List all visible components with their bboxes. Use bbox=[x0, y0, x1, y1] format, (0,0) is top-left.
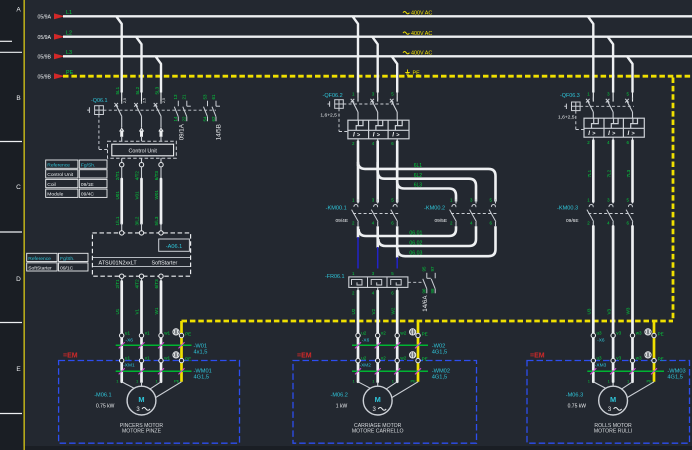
wire 1 terminal X6 to XM motor 2 bbox=[357, 338, 360, 359]
motor 3 lead-in wires bbox=[593, 382, 654, 398]
svg-text:06.03: 06.03 bbox=[409, 251, 422, 257]
location box =EM motor 3 bbox=[527, 361, 690, 444]
svg-text:6L2: 6L2 bbox=[414, 173, 423, 179]
svg-text:-FR06.1: -FR06.1 bbox=[325, 274, 344, 280]
wire 2 KM00.3 to terminal X6 motor 3 bbox=[612, 226, 615, 333]
svg-text:61: 61 bbox=[211, 94, 216, 100]
breaker QF06.2 pole 3 bbox=[390, 98, 397, 121]
breaker QF06.2 release box bbox=[348, 120, 409, 139]
terminal strip -XM1 motor 1 bbox=[120, 358, 184, 362]
terminal labels -XM1 motor 1 bbox=[123, 355, 191, 368]
cable -WM03 motor 3 bbox=[587, 368, 685, 380]
contactor KM00.2 pole 2 bbox=[470, 199, 477, 226]
svg-text:6/T3: 6/T3 bbox=[154, 171, 159, 181]
PE distribution bus horizontal bbox=[182, 320, 674, 323]
label ~400V AC bbox=[403, 11, 432, 17]
wire 2 XM to motor 2 bbox=[376, 363, 379, 382]
svg-text:1,6+2,5: 1,6+2,5 bbox=[320, 113, 337, 119]
wire branch2 pole 3 continues to KM00.1 bbox=[396, 165, 399, 202]
ferrule on wire 1 above control unit bbox=[120, 128, 124, 141]
wire link 6L2 bbox=[378, 162, 476, 202]
svg-text:=EM: =EM bbox=[63, 352, 78, 359]
PE symbol motor 3 bbox=[645, 352, 651, 358]
svg-text:u1: u1 bbox=[125, 330, 131, 335]
label =EM motor 1 bbox=[63, 352, 78, 359]
breaker QF06.3 setting 1,6+2,5 bbox=[558, 115, 575, 121]
wire labels 7L1 7L2 7L3 bbox=[587, 169, 631, 177]
svg-text:A: A bbox=[16, 7, 21, 14]
label motor 1 power rating bbox=[96, 404, 115, 410]
svg-text:4G1,5: 4G1,5 bbox=[667, 375, 683, 381]
terminal numbers QF06.2 bottom 2 4 6 bbox=[352, 141, 394, 146]
svg-text:V2: V2 bbox=[371, 308, 376, 314]
cable -WM02 motor 2 bbox=[352, 368, 450, 380]
svg-text:w2: w2 bbox=[400, 355, 406, 360]
motor 1 lead terminal marks bbox=[116, 379, 179, 384]
cable -WM01 motor 1 bbox=[116, 368, 212, 380]
thermal relay FR06.1 dashed link to aux contact bbox=[408, 281, 424, 283]
svg-text:v3: v3 bbox=[616, 330, 621, 335]
svg-text:2,5: 2,5 bbox=[123, 98, 127, 103]
caption motor 2 bbox=[352, 423, 404, 434]
soft starter terminal circles wire 3 bbox=[159, 231, 163, 279]
svg-text:09/5E: 09/5E bbox=[435, 218, 448, 224]
breaker QF06.3 release box bbox=[584, 118, 644, 137]
svg-text:I: I bbox=[392, 132, 394, 139]
wire 1 XM to motor 2 bbox=[357, 363, 360, 382]
breaker QF06.2 actuator bbox=[328, 100, 344, 109]
svg-text:-QF06.3: -QF06.3 bbox=[560, 93, 580, 99]
PE symbol motor 1 bbox=[173, 352, 179, 358]
control unit box bbox=[108, 141, 177, 158]
wire branch2 L1 drop bbox=[353, 16, 359, 101]
svg-text:98: 98 bbox=[430, 288, 435, 294]
svg-text:05/9B: 05/9B bbox=[37, 74, 51, 80]
PE drop motor 1 bbox=[180, 321, 183, 382]
svg-text:-M06.2: -M06.2 bbox=[330, 393, 347, 399]
wire node 06.03 blue segment to FR06.1 bbox=[396, 257, 398, 268]
label PE with earth symbol bbox=[405, 70, 420, 77]
wire 2 XM to motor 3 bbox=[612, 363, 615, 382]
svg-text:-KM00.2: -KM00.2 bbox=[424, 206, 445, 212]
svg-text:MOTORE CARRELLO: MOTORE CARRELLO bbox=[352, 428, 404, 434]
contactor KM00.2 page ref bbox=[435, 218, 448, 224]
contactor KM00.1 label bbox=[326, 206, 347, 212]
svg-text:0.75 kW: 0.75 kW bbox=[96, 404, 115, 410]
wire 3 terminal X6 to XM motor 3 bbox=[631, 338, 634, 359]
wire 2 terminal X6 to XM motor 3 bbox=[612, 338, 615, 359]
contactor KM00.2 mech dashed link bbox=[451, 213, 497, 215]
breaker QF06.2 pole 1 bbox=[351, 98, 358, 121]
wire branch2 pole 1 continues to KM00.1 bbox=[357, 165, 360, 202]
breaker Q06.1 label bbox=[91, 98, 107, 104]
wire KM00.1 pole 3 output to junction bbox=[396, 226, 399, 257]
contactor KM00.1 mech dashed link bbox=[353, 213, 398, 215]
svg-text:5L3: 5L3 bbox=[155, 86, 160, 94]
terminal labels X6 motor 3 bbox=[597, 330, 664, 343]
breaker QF06.2 setting 1,6+2,5 bbox=[320, 113, 337, 119]
svg-text:U01: U01 bbox=[115, 191, 120, 200]
terminal numbers QF06.3 bottom 2 4 6 bbox=[587, 140, 629, 145]
wire labels U2 V2 W2 bbox=[351, 307, 395, 314]
svg-text:3/L2: 3/L2 bbox=[135, 216, 140, 225]
wire branch3 L1 drop bbox=[588, 16, 594, 101]
svg-text:w1: w1 bbox=[164, 330, 170, 335]
contactor KM00.2 terminal numbers bbox=[450, 198, 493, 226]
wire 1 XM to motor 1 bbox=[120, 363, 123, 382]
svg-text:PE: PE bbox=[413, 71, 421, 77]
svg-text:0.75 kW: 0.75 kW bbox=[568, 404, 587, 410]
svg-text:Fg/Sh.: Fg/Sh. bbox=[81, 163, 95, 169]
svg-text:09/1A: 09/1A bbox=[179, 123, 186, 140]
soft starter A06.1 box bbox=[92, 233, 190, 276]
contactor KM00.3 mech dashed link bbox=[588, 213, 633, 215]
contactor KM00.3 pole 1 bbox=[587, 199, 594, 226]
svg-text:06.01: 06.01 bbox=[409, 231, 422, 237]
breaker QF06.3 pole 2 bbox=[606, 98, 613, 119]
wire QF06.2 pole 3 down to junction bbox=[396, 139, 398, 165]
wire 2 control unit to softstarter bbox=[139, 158, 143, 230]
wire node 06.02 blue segment to FR06.1 bbox=[377, 247, 379, 269]
svg-text:I: I bbox=[373, 132, 375, 139]
terminal numbers QF06.2 top 1 3 5 bbox=[352, 92, 630, 97]
svg-text:I: I bbox=[628, 130, 630, 137]
ferrule on wire 3 above control unit bbox=[159, 128, 163, 141]
wire 1 KM00.3 to terminal X6 motor 3 bbox=[592, 226, 595, 333]
PE drop motor 3 bbox=[653, 321, 656, 382]
terminal strip X6 motor 1 bbox=[120, 333, 184, 337]
svg-text:E: E bbox=[16, 366, 21, 373]
aux contact Q06.1 13-14 / 21-22 bbox=[173, 94, 191, 122]
svg-text:PE: PE bbox=[658, 332, 664, 337]
wire 3 XM to motor 1 bbox=[160, 363, 163, 382]
wire QF06.2 pole 1 down to junction bbox=[357, 139, 359, 165]
frame row letters bbox=[16, 7, 21, 374]
contactor KM00.3 page ref bbox=[566, 218, 579, 224]
svg-text:w3: w3 bbox=[636, 330, 642, 335]
breaker QF06.2 dashed drop to release box bbox=[339, 108, 348, 131]
svg-text:7L1: 7L1 bbox=[587, 169, 592, 177]
svg-text:1/L1: 1/L1 bbox=[115, 216, 120, 225]
wire node 06.03 merge link bbox=[398, 226, 496, 256]
svg-text:54: 54 bbox=[202, 116, 207, 122]
svg-text:400V AC: 400V AC bbox=[411, 31, 432, 37]
svg-text:V01: V01 bbox=[135, 191, 140, 200]
wire 1 softstarter to terminal X6 bbox=[121, 279, 123, 334]
svg-text:-X6: -X6 bbox=[362, 338, 370, 344]
svg-text:97: 97 bbox=[430, 266, 435, 272]
svg-text:95: 95 bbox=[422, 266, 427, 272]
motor 1 lead-in wires bbox=[122, 382, 182, 398]
label motor 3 power rating bbox=[568, 404, 587, 410]
svg-text:W1: W1 bbox=[154, 307, 159, 314]
svg-text:1,6+2,5: 1,6+2,5 bbox=[558, 115, 575, 121]
PE symbol motor 3 bbox=[645, 329, 651, 335]
wire 2 softstarter to terminal X6 bbox=[141, 279, 143, 334]
svg-text:400V AC: 400V AC bbox=[411, 51, 432, 57]
svg-text:U2: U2 bbox=[351, 308, 356, 314]
svg-text:14: 14 bbox=[173, 116, 178, 122]
svg-text:M: M bbox=[138, 395, 144, 404]
terminal labels -XM2 motor 2 bbox=[360, 355, 428, 368]
svg-text:21: 21 bbox=[182, 94, 187, 100]
wire 3 XM to motor 2 bbox=[396, 363, 399, 382]
terminal labels -XM3 motor 3 bbox=[595, 355, 664, 368]
PE symbol motor 1 bbox=[173, 329, 179, 335]
wire 3 terminal X6 to XM motor 1 bbox=[160, 338, 163, 359]
aux contact FR06.1 95-96 / 97-98 bbox=[422, 266, 436, 294]
svg-text:-WM03: -WM03 bbox=[667, 368, 685, 374]
svg-text:PE: PE bbox=[658, 356, 664, 361]
svg-text:W3: W3 bbox=[626, 307, 631, 314]
svg-text:V3: V3 bbox=[606, 308, 611, 314]
label 6L3 bbox=[414, 183, 423, 189]
contactor KM00.3 pole 2 bbox=[607, 199, 614, 226]
svg-text:U3: U3 bbox=[587, 308, 592, 314]
svg-text:U1: U1 bbox=[115, 308, 120, 314]
label 6L2 bbox=[414, 173, 423, 179]
location box =EM motor 1 bbox=[59, 361, 240, 444]
label =EM motor 3 bbox=[530, 352, 545, 359]
svg-text:-X6: -X6 bbox=[597, 338, 605, 344]
breaker QF06.3 pole 1 bbox=[586, 98, 593, 119]
svg-text:u3: u3 bbox=[597, 355, 603, 360]
svg-text:4G1,5: 4G1,5 bbox=[432, 350, 448, 356]
breaker QF06.3 pole 3 bbox=[625, 98, 632, 119]
aux contact Q06.1 53-54 / 61-62 bbox=[202, 94, 220, 122]
wire branch3 L3 drop bbox=[627, 56, 633, 101]
svg-text:SoftStarter: SoftStarter bbox=[28, 265, 52, 271]
frame row tick marks bbox=[0, 41, 22, 413]
soft starter terminal circles wire 1 bbox=[120, 231, 124, 279]
svg-text:6L3: 6L3 bbox=[414, 183, 423, 189]
label =EM motor 2 bbox=[297, 352, 312, 359]
ferrule on wire 2 above control unit bbox=[139, 128, 143, 141]
breaker Q06.1 pole 1 contact bbox=[114, 102, 121, 128]
breaker QF06.2 pole 2 bbox=[370, 98, 377, 121]
svg-text:M: M bbox=[610, 395, 616, 404]
svg-text:62: 62 bbox=[211, 116, 216, 122]
svg-text:Reference: Reference bbox=[28, 256, 51, 262]
breaker Q06.1 trip dashed link bbox=[103, 109, 216, 111]
label node 06.01 bbox=[409, 231, 422, 237]
svg-text:22: 22 bbox=[182, 116, 187, 122]
terminal strip -XM2 motor 2 bbox=[356, 358, 420, 362]
svg-text:u2: u2 bbox=[361, 330, 367, 335]
wire node 06.01 blue segment to FR06.1 bbox=[357, 237, 359, 269]
wire branch2 pole 2 continues to KM00.1 bbox=[376, 165, 379, 202]
wire branch1 L3 drop bbox=[156, 56, 162, 101]
wire KM00.1 pole 2 output to junction bbox=[376, 226, 379, 247]
svg-text:w3: w3 bbox=[636, 355, 642, 360]
breaker QF06.3 dashed drop to release box bbox=[576, 111, 584, 130]
svg-text:w2: w2 bbox=[400, 330, 406, 335]
svg-text:-WM01: -WM01 bbox=[194, 368, 212, 374]
svg-text:W01: W01 bbox=[154, 190, 159, 200]
PE riser right side bbox=[672, 78, 675, 322]
svg-text:1 kW: 1 kW bbox=[336, 404, 348, 410]
wire 1 XM to motor 3 bbox=[592, 363, 595, 382]
svg-text:09/6E: 09/6E bbox=[566, 218, 579, 224]
wire QF06.2 pole 2 down to junction bbox=[377, 139, 379, 165]
svg-text:-W01: -W01 bbox=[194, 343, 208, 349]
svg-text:v3: v3 bbox=[616, 355, 621, 360]
wire 2 terminal X6 to XM motor 2 bbox=[376, 338, 379, 359]
svg-text:I: I bbox=[608, 130, 610, 137]
contactor KM00.1 page ref bbox=[336, 218, 349, 224]
svg-text:Module: Module bbox=[47, 192, 63, 198]
svg-text:-W02: -W02 bbox=[432, 343, 446, 349]
thermal relay FR06.1 terminal numbers bottom bbox=[352, 291, 394, 296]
PE symbol motor 2 bbox=[410, 352, 416, 358]
wire 2 FR06.1 to terminal X6 motor 2 bbox=[377, 287, 379, 333]
svg-text:I: I bbox=[353, 132, 355, 139]
svg-text:ATSU01N2xxLT: ATSU01N2xxLT bbox=[99, 261, 138, 267]
motor 2 lead terminal marks bbox=[353, 379, 417, 384]
svg-text:4G1,5: 4G1,5 bbox=[194, 375, 210, 381]
svg-text:PE: PE bbox=[422, 332, 428, 337]
svg-text:5L2: 5L2 bbox=[135, 86, 140, 94]
motor -M06.2 bbox=[363, 386, 392, 415]
soft starter name plate -A06.1 bbox=[159, 239, 190, 251]
svg-text:6/T3: 6/T3 bbox=[154, 279, 159, 289]
label node 06.02 bbox=[409, 241, 422, 247]
svg-text:4G1,5: 4G1,5 bbox=[432, 375, 448, 381]
svg-text:W2: W2 bbox=[390, 307, 395, 314]
svg-text:6L1: 6L1 bbox=[414, 163, 423, 169]
svg-text:5L1: 5L1 bbox=[115, 86, 120, 94]
terminal strip X6 motor 2 bbox=[356, 333, 420, 337]
wire 3 terminal X6 to XM motor 2 bbox=[396, 338, 399, 359]
contactor KM00.3 terminal numbers bbox=[587, 198, 629, 226]
label -M06.3 bbox=[566, 393, 583, 399]
wire 3 KM00.3 to terminal X6 motor 3 bbox=[631, 226, 634, 333]
wire node 06.02 merge link bbox=[378, 226, 476, 246]
contactor KM00.3 pole 3 bbox=[626, 199, 633, 226]
wire 3 FR06.1 to terminal X6 motor 2 bbox=[396, 287, 398, 333]
terminal strip -XM3 motor 3 bbox=[591, 358, 656, 362]
svg-text:PE: PE bbox=[185, 332, 191, 337]
breaker QF06.2 label bbox=[323, 93, 343, 99]
wire labels 5L1 5L2 5L3 bbox=[115, 86, 166, 103]
frame border yellow line bbox=[23, 0, 25, 450]
wire 2 terminal X6 to XM motor 1 bbox=[140, 338, 143, 359]
svg-text:Fg/Sh.: Fg/Sh. bbox=[60, 256, 74, 262]
soft starter terminal circles wire 2 bbox=[139, 231, 143, 279]
svg-text:4/T2: 4/T2 bbox=[135, 171, 140, 181]
aux Q06.1 page ref 09/1A bbox=[179, 123, 186, 140]
svg-text:09/1C: 09/1C bbox=[60, 265, 74, 271]
wire 2 XM to motor 1 bbox=[140, 363, 143, 382]
svg-text:2/T1: 2/T1 bbox=[115, 171, 120, 181]
svg-text:=EM: =EM bbox=[297, 352, 312, 359]
contactor KM00.1 terminal numbers bbox=[352, 198, 394, 226]
wire labels 2/T1 4/T2 6/T3 and U01 V01 W01 bbox=[115, 171, 159, 226]
wire branch2 L3 drop bbox=[392, 56, 398, 101]
bus L3 bbox=[37, 50, 692, 60]
svg-text:4/T2: 4/T2 bbox=[135, 279, 140, 289]
svg-text:-KM00.3: -KM00.3 bbox=[557, 206, 578, 212]
svg-text:MOTORE RULLI: MOTORE RULLI bbox=[594, 428, 632, 434]
location box =EM motor 2 bbox=[293, 361, 477, 444]
aux Q06.1 page ref 14/5B bbox=[216, 124, 223, 140]
svg-text:05/9A: 05/9A bbox=[37, 35, 51, 41]
svg-text:-XM2: -XM2 bbox=[360, 363, 372, 369]
svg-text:2/T1: 2/T1 bbox=[115, 279, 120, 289]
contactor KM00.2 label bbox=[424, 206, 445, 212]
svg-text:SoftStarter: SoftStarter bbox=[152, 261, 178, 267]
svg-text:V1: V1 bbox=[135, 308, 140, 314]
svg-text:=EM: =EM bbox=[530, 352, 545, 359]
svg-text:v1: v1 bbox=[145, 355, 150, 360]
breaker Q06.1 mechanism dashed drop to control unit bbox=[99, 115, 108, 150]
wire branch2 L2 drop bbox=[372, 37, 378, 102]
aux FR06.1 page ref 14/6A bbox=[422, 295, 429, 312]
svg-text:7L3: 7L3 bbox=[626, 169, 631, 177]
svg-text:-Q06.1: -Q06.1 bbox=[91, 98, 107, 104]
terminal labels X6 motor 1 bbox=[125, 330, 191, 343]
svg-text:PE: PE bbox=[411, 379, 417, 384]
breaker QF06.3 trip dashed link bbox=[580, 105, 634, 107]
label motor 2 power rating bbox=[336, 404, 348, 410]
svg-text:PE: PE bbox=[174, 379, 180, 384]
reference table Q06.1 (Control Unit / Coil / Module) bbox=[46, 160, 107, 198]
thermal relay FR06.1 label bbox=[325, 274, 344, 280]
wire branch1 L1 drop bbox=[116, 16, 122, 101]
svg-text:05/9B: 05/9B bbox=[37, 55, 51, 61]
svg-text:-KM00.1: -KM00.1 bbox=[326, 206, 347, 212]
wire link 6L1 bbox=[358, 162, 496, 202]
motor 3 lead terminal marks bbox=[588, 379, 652, 384]
label -M06.1 bbox=[94, 393, 111, 399]
breaker Q06.1 pole 2 contact bbox=[134, 102, 141, 128]
svg-text:v2: v2 bbox=[381, 330, 386, 335]
svg-text:PE: PE bbox=[185, 356, 191, 361]
svg-text:5/L3: 5/L3 bbox=[154, 216, 159, 225]
PE symbol motor 2 bbox=[410, 329, 416, 335]
wire 1 FR06.1 to terminal X6 motor 2 bbox=[357, 287, 359, 333]
svg-text:96: 96 bbox=[422, 288, 427, 294]
wire node 06.01 merge link bbox=[359, 226, 456, 236]
bus PE bbox=[37, 70, 692, 80]
PE drop motor 2 bbox=[417, 321, 420, 382]
svg-text:-M06.3: -M06.3 bbox=[566, 393, 583, 399]
wire 3 softstarter to terminal X6 bbox=[160, 279, 162, 334]
svg-text:MOTORE PINZE: MOTORE PINZE bbox=[122, 428, 162, 434]
svg-text:C: C bbox=[16, 184, 21, 191]
wire 3 control unit to softstarter bbox=[159, 158, 163, 230]
svg-text:v2: v2 bbox=[381, 355, 386, 360]
cable -W01 motor 1 bbox=[116, 342, 208, 355]
motor -M06.3 bbox=[599, 386, 628, 415]
wire 3 XM to motor 3 bbox=[631, 363, 634, 382]
svg-text:u1: u1 bbox=[125, 355, 131, 360]
svg-text:-M06.1: -M06.1 bbox=[94, 393, 111, 399]
contactor KM00.2 pole 1 bbox=[450, 199, 457, 226]
svg-text:09/4C: 09/4C bbox=[81, 192, 95, 198]
svg-text:B: B bbox=[16, 95, 20, 102]
svg-text:Control Unit: Control Unit bbox=[47, 172, 73, 178]
motor -M06.1 bbox=[127, 386, 156, 415]
svg-text:Control Unit: Control Unit bbox=[128, 148, 157, 154]
wire labels U3 V3 W3 bbox=[587, 307, 631, 314]
label ~400V AC bbox=[403, 51, 432, 57]
svg-text:w1: w1 bbox=[164, 355, 170, 360]
svg-text:v1: v1 bbox=[145, 330, 150, 335]
label -M06.2 bbox=[330, 393, 347, 399]
svg-text:-XM1: -XM1 bbox=[123, 363, 135, 369]
svg-text:13: 13 bbox=[173, 94, 178, 100]
